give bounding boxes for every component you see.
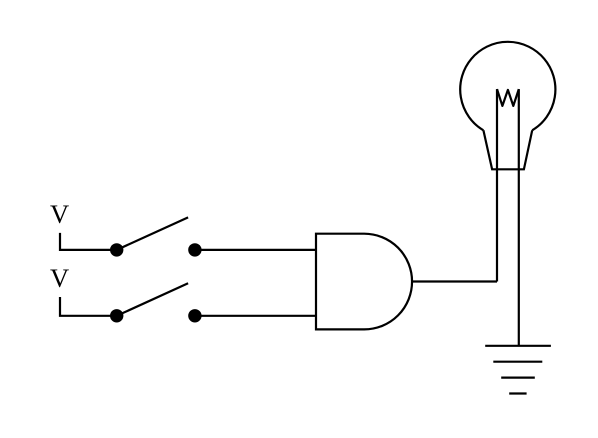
lamp L1 filament zigzag [497, 89, 519, 106]
ground symbol bar 1 [485, 345, 551, 347]
switch S1 blade (open) [117, 217, 188, 250]
lamp L1 base / neck [483, 130, 532, 169]
ground symbol bar 3 [501, 377, 535, 379]
switch S2 blade (open) [117, 283, 188, 316]
node dot: switch S2 throw terminal [188, 309, 201, 322]
lamp right lead wire (down from filament to ground) [518, 89, 520, 346]
svg-text:V: V [50, 263, 69, 293]
AND gate U1 body [316, 234, 412, 330]
node dot: switch S1 throw terminal [188, 243, 201, 256]
wire from switch S1 to AND gate input A [195, 249, 316, 251]
wire from switch S2 to AND gate input B [195, 315, 316, 317]
wire from AND gate output to lamp [412, 280, 497, 282]
ground symbol bar 4 [509, 392, 526, 394]
lamp L1 glass envelope (circle with bottom gap) [460, 42, 555, 130]
node dot: switch S2 pole terminal [110, 309, 123, 322]
lamp left lead wire (down from filament to output wire) [496, 89, 498, 281]
ground symbol bar 2 [493, 361, 542, 363]
node dot: switch S1 pole terminal [110, 243, 123, 256]
wire from V1 source to switch S1 pole [60, 233, 117, 250]
svg-text:V: V [50, 199, 69, 229]
wire from V2 source to switch S2 pole [60, 297, 117, 316]
